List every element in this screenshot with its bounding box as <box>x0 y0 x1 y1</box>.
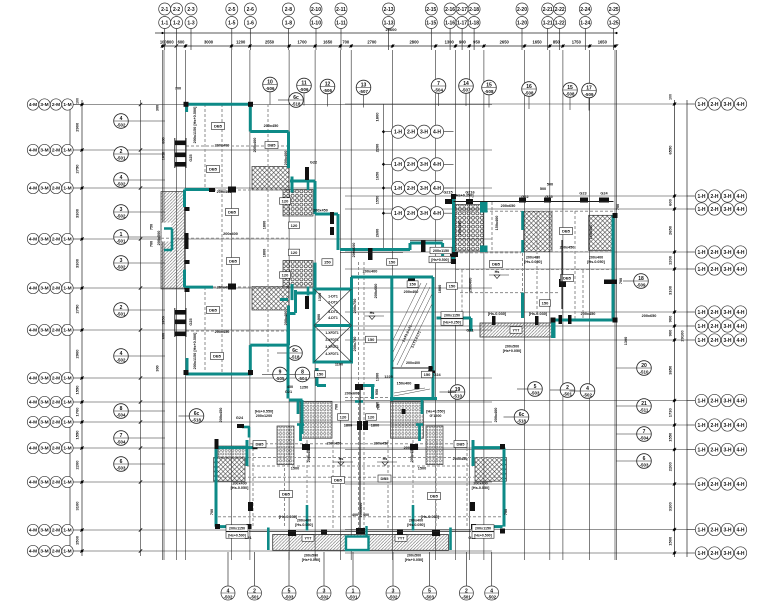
dimension line right overall 29100 <box>675 100 688 557</box>
column crosshatch block bottom wing left corner <box>214 458 245 482</box>
svg-text:2-20: 2-20 <box>517 7 527 13</box>
wall W25 <box>340 248 410 251</box>
svg-text:2-H: 2-H <box>710 310 718 316</box>
svg-text:150: 150 <box>424 372 431 377</box>
node axis bubble top 2-25/1-25 <box>608 3 620 50</box>
wall niche left strip <box>164 229 172 251</box>
svg-text:5: 5 <box>428 588 431 594</box>
svg-text:4-H: 4-H <box>736 310 744 316</box>
node detail callout 9-505 <box>262 367 287 382</box>
svg-text:600: 600 <box>162 333 166 339</box>
svg-text:YYT: YYT <box>305 537 313 541</box>
svg-text:-503: -503 <box>425 595 434 600</box>
svg-text:3300: 3300 <box>75 258 80 268</box>
svg-text:2900: 2900 <box>75 122 80 132</box>
node dimension dots top line <box>161 32 618 48</box>
svg-text:2-H: 2-H <box>407 211 415 217</box>
svg-text:1-25: 1-25 <box>609 20 619 26</box>
svg-text:150: 150 <box>317 372 324 377</box>
svg-text:700: 700 <box>150 241 154 247</box>
svg-text:[Hs-0.050]: [Hs-0.050] <box>407 523 425 527</box>
svg-text:2-13: 2-13 <box>384 7 394 13</box>
svg-text:G24: G24 <box>433 373 441 377</box>
svg-text:2-24: 2-24 <box>580 7 590 13</box>
svg-text:G25: G25 <box>189 318 193 325</box>
svg-text:1650: 1650 <box>376 172 380 180</box>
svg-text:150x400: 150x400 <box>397 382 412 386</box>
svg-text:2-M: 2-M <box>52 446 60 452</box>
svg-text:120: 120 <box>340 415 347 420</box>
wall W29 <box>443 257 454 259</box>
node axis bubble cluster mid y=188 <box>384 181 454 194</box>
svg-text:-518: -518 <box>292 102 301 107</box>
svg-text:2-6: 2-6 <box>247 7 254 13</box>
dimension line left overall <box>70 100 82 556</box>
svg-text:[Hs+0.050]: [Hs+0.050] <box>302 558 321 562</box>
svg-text:200x600: 200x600 <box>352 243 356 258</box>
svg-text:5: 5 <box>288 588 291 594</box>
svg-text:150x400: 150x400 <box>589 225 593 240</box>
svg-text:-503: -503 <box>640 463 649 468</box>
wall W56 <box>297 399 300 415</box>
wall W2 <box>185 104 188 112</box>
svg-text:4-M: 4-M <box>29 400 37 406</box>
svg-text:150: 150 <box>368 337 375 342</box>
svg-text:2650: 2650 <box>500 40 510 45</box>
svg-text:G215: G215 <box>443 191 452 195</box>
svg-text:2-21: 2-21 <box>543 7 553 13</box>
node axis bubble cluster right y=400.5 <box>687 394 747 406</box>
svg-text:200x400: 200x400 <box>469 278 473 293</box>
svg-text:-502: -502 <box>117 214 126 219</box>
svg-text:DB5: DB5 <box>456 442 465 447</box>
svg-text:200x400: 200x400 <box>217 190 232 194</box>
svg-text:700: 700 <box>616 204 620 210</box>
svg-text:700: 700 <box>342 40 350 45</box>
svg-text:200x400: 200x400 <box>458 221 462 236</box>
svg-text:200x500: 200x500 <box>505 345 519 349</box>
svg-text:1-24: 1-24 <box>580 20 590 26</box>
wall W39 <box>521 293 524 318</box>
svg-text:3000: 3000 <box>204 40 214 45</box>
svg-text:2-H: 2-H <box>710 338 718 344</box>
svg-text:3-M: 3-M <box>40 420 48 426</box>
svg-text:-502: -502 <box>389 595 398 600</box>
svg-text:2-18: 2-18 <box>469 7 479 13</box>
svg-text:G25: G25 <box>545 195 552 199</box>
svg-text:4-H: 4-H <box>433 162 441 168</box>
svg-text:G22: G22 <box>521 195 528 199</box>
svg-text:DB5: DB5 <box>228 210 237 215</box>
node detail callout 13-507 <box>356 80 371 107</box>
node section bubble bottom 1-501 <box>346 552 360 600</box>
svg-text:200x450: 200x450 <box>374 442 389 446</box>
svg-text:900: 900 <box>459 40 467 45</box>
dimension ticks and numbers right chain <box>673 102 676 554</box>
svg-text:200x1150: 200x1150 <box>229 527 245 531</box>
svg-text:1-H: 1-H <box>697 338 705 344</box>
svg-text:-501: -501 <box>117 312 126 317</box>
svg-text:2-H: 2-H <box>710 527 718 533</box>
svg-text:1-2: 1-2 <box>173 20 180 26</box>
svg-text:4-H: 4-H <box>736 423 744 429</box>
wall right wing top boundary <box>454 201 614 203</box>
svg-text:200x400: 200x400 <box>589 256 603 260</box>
svg-text:G23: G23 <box>579 192 586 196</box>
node axis bubble cluster left y=104.5 <box>27 99 82 110</box>
node detail callout 5-503 <box>517 382 542 397</box>
wall W33 <box>287 314 290 399</box>
column black filled marks <box>184 102 618 536</box>
svg-text:1225: 1225 <box>384 375 392 379</box>
svg-text:-503: -503 <box>531 391 540 396</box>
svg-text:3-H: 3-H <box>723 551 731 557</box>
svg-text:DB5: DB5 <box>563 276 572 281</box>
svg-text:2-H: 2-H <box>710 423 718 429</box>
wire horizontal grid lines (right axes) <box>345 104 687 553</box>
node detail callout 20-510 <box>616 361 651 376</box>
svg-text:-508: -508 <box>485 89 494 94</box>
svg-text:150x400: 150x400 <box>495 216 499 231</box>
svg-text:200x400: 200x400 <box>404 290 419 294</box>
svg-text:120: 120 <box>291 223 298 228</box>
dimension ticks and numbers left chain <box>80 103 83 553</box>
node axis bubble cluster mid y=131.7 <box>384 125 454 138</box>
svg-text:2-H: 2-H <box>710 447 718 453</box>
svg-text:[Hs-0.030]: [Hs-0.030] <box>421 515 440 519</box>
svg-text:4-XFDT1: 4-XFDT1 <box>325 352 339 356</box>
svg-text:200x450: 200x450 <box>313 209 328 213</box>
svg-text:-502: -502 <box>487 595 496 600</box>
svg-text:400: 400 <box>352 513 358 517</box>
svg-text:4-H: 4-H <box>736 102 744 108</box>
svg-text:-507: -507 <box>462 88 471 93</box>
wall corridor edge lines <box>340 241 443 253</box>
svg-text:1-5: 1-5 <box>228 20 235 26</box>
node axis bubble cluster right y=269 <box>687 263 747 275</box>
svg-text:2-M: 2-M <box>52 186 60 192</box>
svg-text:3300: 3300 <box>75 208 80 218</box>
wire left plan edge line with ticks <box>140 100 142 556</box>
label YYT boxes <box>302 327 522 542</box>
svg-text:2-16: 2-16 <box>445 7 455 13</box>
svg-text:[Hs-0.030]: [Hs-0.030] <box>279 515 298 519</box>
wall W63 <box>248 427 251 438</box>
wall W7 <box>186 358 189 374</box>
shear wall honeycomb block right wing <box>455 205 484 252</box>
node axis bubble cluster left y=330 <box>27 324 82 335</box>
node detail callout 11-506 <box>297 78 312 105</box>
node detail callout 7-504 <box>114 431 165 446</box>
svg-text:1-17: 1-17 <box>457 20 467 26</box>
node axis bubble top 2-1/1-1 <box>159 3 171 50</box>
shear wall stipple block above left corner <box>218 446 247 458</box>
svg-text:4-H: 4-H <box>736 267 744 273</box>
svg-text:[Hs+0.500]: [Hs+0.500] <box>431 258 449 262</box>
svg-text:850: 850 <box>553 40 561 45</box>
svg-text:700: 700 <box>619 278 623 284</box>
node axis bubble top 2-24/1-24 <box>579 3 591 50</box>
svg-text:1-M: 1-M <box>63 148 71 154</box>
svg-text:DB5: DB5 <box>430 494 439 499</box>
wall W24 <box>337 214 340 250</box>
svg-text:4-H: 4-H <box>736 338 744 344</box>
wall W4 <box>250 130 288 133</box>
svg-text:1500: 1500 <box>668 536 673 546</box>
svg-text:2-H: 2-H <box>710 250 718 256</box>
svg-text:100: 100 <box>669 94 673 100</box>
svg-text:200x400: 200x400 <box>297 519 311 523</box>
svg-text:300: 300 <box>156 105 160 111</box>
svg-text:1-15: 1-15 <box>426 20 436 26</box>
svg-text:4-M: 4-M <box>29 102 37 108</box>
svg-text:1-H: 1-H <box>697 324 705 330</box>
svg-text:-504: -504 <box>117 440 126 445</box>
svg-text:1500: 1500 <box>418 467 426 471</box>
svg-text:3-H: 3-H <box>420 162 428 168</box>
node axis bubble cluster right y=484 <box>687 478 747 490</box>
svg-text:DB5: DB5 <box>214 124 223 129</box>
svg-text:1750: 1750 <box>572 40 582 45</box>
svg-text:1-8: 1-8 <box>285 20 292 26</box>
dimension line top overall 29600 <box>155 33 617 46</box>
svg-text:900: 900 <box>668 315 673 322</box>
svg-text:DB5: DB5 <box>282 492 291 497</box>
svg-text:-511: -511 <box>640 408 649 413</box>
svg-text:3-M: 3-M <box>40 186 48 192</box>
svg-text:200x1150 [Hs+0.500]: 200x1150 [Hs+0.500] <box>193 106 197 144</box>
svg-text:700: 700 <box>504 509 508 515</box>
node axis bubble top 2-22/1-22 <box>554 3 566 50</box>
svg-text:200x400: 200x400 <box>406 361 420 365</box>
staircase LT1 <box>392 283 433 396</box>
node dimension dots right line <box>673 102 676 554</box>
node axis bubble cluster right y=553 <box>687 547 747 559</box>
wall W20 <box>280 298 288 301</box>
svg-text:-504: -504 <box>298 376 307 381</box>
svg-text:2550: 2550 <box>265 40 275 45</box>
svg-text:4-H: 4-H <box>736 250 744 256</box>
wire dashed beam lines <box>161 104 615 533</box>
label DB5 boxes <box>207 123 574 500</box>
svg-text:G'1200: G'1200 <box>430 414 442 418</box>
wall right wing interior line <box>561 240 563 309</box>
wall W69 <box>215 448 218 527</box>
node detail callout 6c-518 <box>277 346 302 361</box>
node axis bubble top 2-16/1-16 <box>444 3 456 50</box>
svg-text:1-H: 1-H <box>697 102 705 108</box>
svg-text:4: 4 <box>490 588 493 594</box>
svg-text:700: 700 <box>210 509 214 515</box>
svg-text:1-18: 1-18 <box>469 20 479 26</box>
node detail callout 17-509 <box>582 83 597 110</box>
svg-text:-508: -508 <box>525 91 534 96</box>
svg-text:DB5: DB5 <box>380 476 389 481</box>
svg-text:-506: -506 <box>300 87 309 92</box>
svg-text:200x1150 [Hs+0.500]: 200x1150 [Hs+0.500] <box>193 332 197 370</box>
svg-text:YYT: YYT <box>398 537 406 541</box>
wall W70 <box>503 448 506 527</box>
wall W21 <box>314 181 317 214</box>
node section bubble bottom 3-502 <box>317 552 331 600</box>
svg-text:2-M: 2-M <box>52 148 60 154</box>
column crosshatch band upper core <box>252 167 289 191</box>
svg-text:6550: 6550 <box>668 145 673 155</box>
wall W32 <box>288 312 296 315</box>
wall W65 <box>218 446 256 449</box>
node axis bubble top 2-2/1-2 <box>171 3 183 50</box>
svg-text:2-DT1: 2-DT1 <box>328 301 338 305</box>
svg-text:1300: 1300 <box>624 337 628 345</box>
column ladder marks lower <box>175 310 186 336</box>
svg-text:1300: 1300 <box>318 293 322 301</box>
svg-text:4-M: 4-M <box>29 286 37 292</box>
svg-text:3850: 3850 <box>668 365 673 375</box>
svg-text:1300: 1300 <box>448 390 456 394</box>
elevator shaft DT1 <box>314 289 352 362</box>
svg-text:3-M: 3-M <box>40 148 48 154</box>
wall W16 <box>291 284 294 300</box>
node detail callout 4-502 <box>570 384 595 399</box>
svg-text:3-M: 3-M <box>40 102 48 108</box>
svg-text:200x400: 200x400 <box>284 311 288 326</box>
node detail callout 2-501 <box>114 147 165 162</box>
svg-text:3-H: 3-H <box>723 102 731 108</box>
svg-text:1650: 1650 <box>323 40 333 45</box>
svg-text:1-H: 1-H <box>394 211 402 217</box>
svg-text:1250: 1250 <box>300 386 308 390</box>
node detail callout 14-507 <box>459 79 474 106</box>
svg-text:1-H: 1-H <box>697 310 705 316</box>
svg-text:1800: 1800 <box>263 249 267 257</box>
svg-text:[Hs-0.050]: [Hs-0.050] <box>295 523 313 527</box>
svg-text:[Hs-0.050]: [Hs-0.050] <box>472 486 490 490</box>
svg-text:200x450: 200x450 <box>410 448 414 463</box>
svg-text:1650: 1650 <box>598 40 608 45</box>
wall W9 <box>250 344 288 347</box>
shear wall stipple block bottom wing upper left <box>300 401 332 438</box>
svg-text:700: 700 <box>335 404 339 410</box>
wall teal stub right wing top <box>480 202 488 213</box>
node axis bubble cluster right y=104 <box>687 98 747 110</box>
svg-text:1-H: 1-H <box>697 423 705 429</box>
svg-text:2-H: 2-H <box>407 186 415 192</box>
node axis bubble cluster left y=402 <box>27 396 82 407</box>
svg-text:120: 120 <box>282 273 289 278</box>
wall W59 <box>421 399 424 415</box>
svg-text:2-H: 2-H <box>710 324 718 330</box>
svg-text:[Hs-0.050]: [Hs-0.050] <box>524 260 542 264</box>
node detail callout 8-504 <box>285 367 310 382</box>
svg-text:1-20: 1-20 <box>517 20 527 26</box>
svg-text:3: 3 <box>392 588 395 594</box>
svg-text:2-H: 2-H <box>710 267 718 273</box>
svg-text:2-M: 2-M <box>52 376 60 382</box>
svg-text:2200: 2200 <box>376 144 380 152</box>
svg-text:DB5: DB5 <box>334 478 343 483</box>
svg-text:-502: -502 <box>224 595 233 600</box>
svg-text:3-H: 3-H <box>723 447 731 453</box>
svg-text:1-3: 1-3 <box>187 20 194 26</box>
svg-text:1-H: 1-H <box>697 527 705 533</box>
svg-text:-506: -506 <box>266 86 275 91</box>
svg-text:300: 300 <box>156 365 160 371</box>
node section bubble bottom 4-502 <box>485 552 499 600</box>
svg-text:200x400: 200x400 <box>494 408 498 423</box>
svg-text:400: 400 <box>363 513 369 517</box>
svg-text:4-H: 4-H <box>736 398 744 404</box>
svg-text:1-M: 1-M <box>63 186 71 192</box>
node axis bubble cluster right y=425 <box>687 419 747 431</box>
svg-text:4-M: 4-M <box>29 420 37 426</box>
svg-text:Hs: Hs <box>383 457 388 461</box>
svg-text:1-M: 1-M <box>63 102 71 108</box>
svg-text:3100: 3100 <box>75 501 80 511</box>
node axis bubble top 2-8/1-8 <box>282 3 294 50</box>
svg-text:200x650: 200x650 <box>642 314 657 318</box>
svg-text:G21: G21 <box>466 329 473 333</box>
svg-text:1-H: 1-H <box>394 186 402 192</box>
node axis bubble top 2-5/1-5 <box>226 3 238 50</box>
svg-text:1-10: 1-10 <box>311 20 321 26</box>
svg-text:400: 400 <box>287 385 293 389</box>
wall W46 <box>352 276 434 279</box>
svg-text:G22: G22 <box>310 161 317 165</box>
svg-text:[Hs+0.500]: [Hs+0.500] <box>228 534 246 538</box>
label dimension texts <box>150 87 657 541</box>
svg-text:1800: 1800 <box>371 424 379 428</box>
svg-text:950: 950 <box>375 389 379 395</box>
wall W68 <box>473 446 504 449</box>
node axis bubble top 2-3/1-3 <box>185 3 197 50</box>
svg-text:4-H: 4-H <box>736 551 744 557</box>
svg-text:200x600: 200x600 <box>345 392 360 396</box>
svg-text:Hs: Hs <box>370 311 375 315</box>
svg-text:700: 700 <box>175 87 181 91</box>
wall W64 <box>242 426 250 429</box>
svg-text:1-M: 1-M <box>63 400 71 406</box>
wall W5 <box>287 132 290 169</box>
svg-text:2-10: 2-10 <box>311 7 321 13</box>
label two-line dimension texts <box>231 256 606 563</box>
svg-text:1550: 1550 <box>75 430 80 440</box>
wall teal box in bottom strip <box>268 526 450 550</box>
svg-text:1100: 1100 <box>335 363 343 367</box>
svg-text:1-M: 1-M <box>63 480 71 486</box>
wall W17 <box>307 181 310 190</box>
wall W44 <box>470 318 473 332</box>
svg-text:2: 2 <box>465 588 468 594</box>
wire mid axis dimension line <box>383 104 385 250</box>
node axis bubble cluster right y=529.5 <box>687 523 747 535</box>
svg-text:2-M: 2-M <box>52 480 60 486</box>
svg-text:DB5: DB5 <box>267 143 276 148</box>
svg-text:DB5: DB5 <box>213 354 222 359</box>
svg-text:-501: -501 <box>563 392 572 397</box>
node axis bubble cluster mid y=213.2 <box>384 207 454 220</box>
wall W28 <box>441 243 444 258</box>
svg-text:3-H: 3-H <box>723 194 731 200</box>
svg-text:4-H: 4-H <box>736 324 744 330</box>
svg-text:-501: -501 <box>117 239 126 244</box>
svg-text:-510: -510 <box>453 394 462 399</box>
svg-text:2-5: 2-5 <box>228 7 235 13</box>
svg-text:3100: 3100 <box>668 285 673 295</box>
label 120 boxes <box>280 198 377 421</box>
svg-text:[Hs-0.050]: [Hs-0.050] <box>231 486 249 490</box>
wall W49 <box>432 277 435 400</box>
wall W72 <box>412 505 415 531</box>
